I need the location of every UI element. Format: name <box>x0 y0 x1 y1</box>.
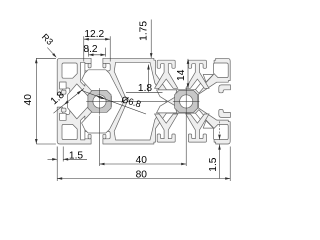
tongue top wide-slot left <box>155 60 178 88</box>
hollow: pocket above BL chamber <box>60 113 67 120</box>
hole left Ø6.8 <box>93 95 106 108</box>
profile outer contour with slot openings <box>57 58 230 144</box>
hollow: pocket under TL chamber <box>60 82 67 89</box>
dim 1.8 top wall <box>126 65 163 95</box>
dim 80 bottom <box>57 147 230 182</box>
crosshair hole x=186.2 <box>173 88 200 115</box>
tongue bottom wide-slot left <box>155 114 178 142</box>
dim 40 bottom <box>100 116 187 167</box>
dim 14 <box>176 59 189 89</box>
svg-text:1.5: 1.5 <box>69 151 83 162</box>
hollow: left slot inner <box>68 84 90 119</box>
svg-text:1.8: 1.8 <box>138 83 152 94</box>
svg-text:80: 80 <box>136 170 148 181</box>
svg-text:1.75: 1.75 <box>138 21 149 41</box>
crosshair hole x=99.5 <box>86 88 113 115</box>
dim 1.75 <box>138 20 152 59</box>
svg-text:40: 40 <box>23 94 34 106</box>
top slot lip finger R <box>103 63 106 68</box>
left slot lip finger B <box>62 108 67 112</box>
hollow: under bottom slot1 + SE moat <box>82 101 124 133</box>
dim 1.8 diagonal <box>49 88 84 113</box>
hollow: hourglass bottom <box>114 101 166 140</box>
hollow: chamber TR <box>213 63 228 78</box>
svg-text:12.2: 12.2 <box>84 29 104 40</box>
hollow: chamber BL <box>62 124 77 139</box>
hollow: right core SE moat <box>196 110 205 120</box>
hole right Ø6.8 <box>180 95 193 108</box>
dim 40 left <box>23 58 56 144</box>
svg-text:1.5: 1.5 <box>208 157 219 171</box>
lip right-face upper <box>219 85 231 93</box>
dim 1.5 bottom-left <box>48 147 88 162</box>
dim Ø6.8 leader <box>81 90 146 114</box>
dim 12.2 <box>84 29 110 62</box>
dim 8.2 <box>83 44 105 57</box>
hollow: pocket above BR chamber <box>203 121 213 129</box>
hollow: under top slot1 + NE moat <box>82 70 124 102</box>
tongue top wide-slot right <box>186 60 209 88</box>
hollow: right core SW moat <box>157 101 177 113</box>
left slot lip finger T <box>62 90 67 94</box>
tongue bottom wide-slot right <box>186 114 209 142</box>
hollow: pocket A top <box>81 62 85 86</box>
hollow: right core NW moat <box>157 90 177 102</box>
hollow: pocket below TR chamber <box>203 75 213 83</box>
lip right-face lower <box>219 110 231 118</box>
hollow: chamber BR <box>213 124 228 139</box>
core block left <box>88 91 111 113</box>
hollow: right core NE moat <box>196 83 205 93</box>
svg-text:14: 14 <box>176 69 187 81</box>
top slot lip finger L <box>88 63 91 68</box>
dim R3 leader <box>40 32 57 58</box>
svg-text:40: 40 <box>136 155 148 166</box>
dim 1.5 bottom-right <box>208 121 221 178</box>
hollow: hourglass top <box>114 62 166 101</box>
core block right <box>175 91 198 113</box>
bottom slot lip finger L <box>88 134 91 139</box>
hollow: pocket A bottom <box>81 116 85 140</box>
hollow: chamber TL <box>62 63 77 78</box>
svg-text:8.2: 8.2 <box>83 44 97 55</box>
bottom slot lip finger R <box>103 134 106 139</box>
